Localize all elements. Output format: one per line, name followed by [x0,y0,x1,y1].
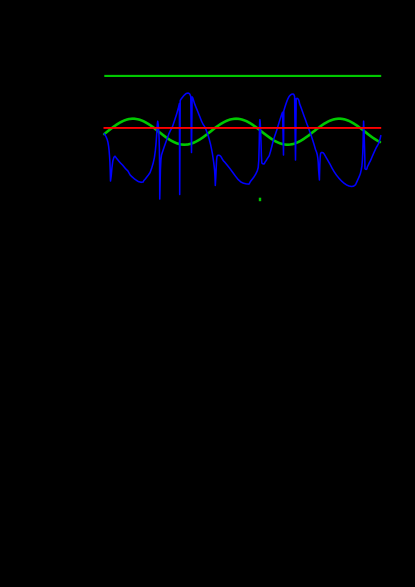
blue curve [104,93,381,199]
green dot marker [259,198,261,202]
red horizontal line [104,127,382,129]
top green horizontal line [104,75,381,77]
green sine curve [104,119,380,145]
